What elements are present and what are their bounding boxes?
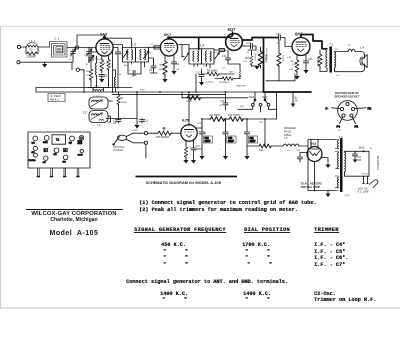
label near C19 gnd	[220, 149, 222, 151]
label C2	[68, 59, 72, 61]
label L1-a	[29, 40, 36, 44]
svg-text:R10 450000: R10 450000	[265, 48, 267, 61]
label C5	[149, 53, 153, 55]
page border scan line left	[0, 26, 2, 308]
svg-text:C13: C13	[144, 120, 149, 123]
tube 6J5	[181, 125, 197, 141]
svg-text:6Q7: 6Q7	[228, 27, 237, 32]
ground under C12/C13	[134, 92, 139, 129]
wire L3 bottom left drop	[128, 64, 141, 76]
svg-text:R16: R16	[245, 57, 250, 60]
svg-text:P3: P3	[355, 124, 359, 128]
socket pin br	[350, 114, 353, 117]
label near field	[287, 150, 290, 152]
label C3	[91, 59, 95, 61]
label R10	[264, 55, 266, 63]
label C23	[308, 58, 313, 61]
label R3	[104, 63, 108, 65]
label near T1 sec	[336, 75, 340, 77]
socket pin left	[340, 107, 343, 110]
wire L3 bottoms	[128, 62, 145, 67]
label C6	[149, 69, 153, 72]
label crystal pickup	[113, 146, 125, 152]
capacitor C6 avc	[150, 62, 157, 73]
wire cathode return	[266, 74, 295, 81]
svg-text:T.1: T.1	[56, 139, 60, 142]
label near 6K7 grid	[150, 44, 154, 46]
label near L2	[96, 96, 100, 98]
svg-text:L.4: L.4	[360, 45, 365, 49]
label L3	[132, 42, 136, 46]
label 6A8 pin	[95, 59, 97, 61]
svg-text:1.5: 1.5	[64, 150, 66, 152]
capacitor C13	[139, 119, 144, 124]
cap C19	[223, 119, 228, 160]
wire loop to grid	[67, 47, 96, 49]
panel box	[28, 132, 90, 168]
junction dot bias	[363, 150, 365, 152]
ground symbol	[42, 62, 47, 67]
label L.4 speaker	[360, 45, 365, 49]
capacitor C24	[352, 151, 357, 163]
svg-text:300: 300	[159, 69, 163, 71]
capacitor C17	[191, 140, 196, 164]
label near pickup sw	[133, 130, 139, 132]
label B+	[295, 96, 299, 103]
svg-text:P1 P2: P1 P2	[362, 174, 369, 176]
label near trimC2	[84, 55, 88, 57]
label R20	[316, 58, 318, 66]
resistor R3	[100, 56, 104, 73]
coil L2 box B	[89, 111, 108, 123]
speaker field label	[284, 127, 296, 140]
svg-text:6A8: 6A8	[32, 141, 35, 144]
socket F	[54, 148, 59, 156]
svg-text:25000: 25000	[121, 102, 128, 104]
socket C	[69, 136, 75, 144]
label R4	[120, 97, 124, 100]
svg-text:F-: F-	[326, 106, 329, 110]
socket lead P4	[337, 117, 343, 128]
AC plug prongs	[363, 176, 369, 183]
wire 6J5 plate	[196, 119, 203, 128]
label OSC	[94, 86, 100, 88]
capacitor C12	[116, 119, 121, 124]
label C11b	[243, 61, 248, 63]
svg-text:6J5: 6J5	[43, 162, 46, 164]
svg-text:C16: C16	[287, 57, 292, 59]
wire bottom osc	[106, 118, 137, 120]
5Y3 supply box	[308, 140, 335, 191]
svg-text:AVC: AVC	[230, 71, 235, 74]
title block: WILCOX-GAY	[26, 209, 123, 210]
socket pin bl	[342, 114, 345, 117]
typed notes	[139, 200, 316, 213]
label 6K6	[295, 31, 303, 36]
loop antenna L1	[50, 42, 68, 58]
label C9	[176, 63, 180, 66]
svg-text:C19: C19	[228, 138, 233, 140]
switch SW1	[251, 92, 256, 106]
wire heater bus left	[88, 87, 110, 89]
label L2	[83, 111, 87, 115]
svg-text:R12 15000: R12 15000	[228, 114, 240, 117]
svg-text:C.14: C.14	[246, 42, 252, 45]
wire bus drop x160	[181, 92, 183, 98]
svg-text:TUNG: TUNG	[78, 141, 83, 143]
resistor R5 cathode	[162, 56, 167, 83]
junction dot heavy	[262, 36, 264, 38]
IF transformer L3	[123, 48, 149, 63]
svg-text:C9: C9	[176, 63, 180, 66]
resistor R4	[107, 56, 110, 88]
label C1a	[112, 42, 116, 44]
svg-text:B+: B+	[370, 148, 373, 150]
grid cap clip 6K7	[167, 37, 170, 39]
label near heater bus	[140, 90, 145, 92]
svg-text:R6 2MEG: R6 2MEG	[207, 69, 218, 72]
label C12	[113, 120, 118, 126]
svg-text:L5: L5	[287, 150, 290, 152]
label C14b	[246, 52, 250, 54]
svg-text:6K6: 6K6	[54, 154, 57, 156]
svg-text:C5: C5	[150, 44, 154, 46]
crystal pickup body	[113, 135, 127, 145]
oscillator coil horizontal	[93, 88, 103, 92]
T2 label	[339, 135, 343, 139]
label R11	[209, 114, 221, 117]
caption rule	[136, 176, 238, 178]
svg-text:L2: L2	[83, 111, 87, 115]
label 520	[292, 64, 296, 66]
trimmer C6	[184, 53, 189, 60]
svg-text:R16: R16	[197, 123, 202, 125]
svg-text:PHONO: PHONO	[29, 160, 36, 162]
resistor R11	[209, 117, 226, 122]
main bus	[36, 91, 264, 93]
label heavy bus	[265, 48, 267, 61]
output transformer T1	[320, 49, 327, 72]
speaker loop wire	[337, 52, 365, 72]
resistor R14	[258, 144, 283, 148]
svg-text:C6: C6	[149, 69, 153, 72]
cap padder C	[115, 52, 120, 88]
wire 6J5 top to bus	[188, 92, 190, 125]
svg-text:SW: SW	[240, 106, 244, 108]
svg-text:520: 520	[292, 64, 296, 66]
svg-text:20MF: 20MF	[228, 141, 234, 143]
node phono jumper	[76, 68, 79, 71]
T2 primary coils left	[335, 140, 339, 191]
label R12	[228, 114, 240, 117]
svg-text:6K7: 6K7	[164, 32, 172, 37]
label C22	[276, 33, 281, 36]
label 6K7	[164, 32, 172, 37]
wire ant to L1-a	[21, 46, 26, 48]
label near R5	[159, 69, 163, 71]
heater text	[301, 182, 323, 188]
label near 6J5 plate	[197, 123, 202, 125]
trimmer C2	[71, 49, 76, 63]
label near R4	[121, 102, 128, 104]
resistor R8	[234, 64, 241, 79]
label near speaker hump	[348, 45, 351, 47]
svg-text:SW3: SW3	[133, 130, 139, 132]
terminal GND	[17, 61, 20, 64]
table body	[0, 241, 1, 243]
svg-text:C15: C15	[220, 100, 225, 103]
socket lead FB	[355, 106, 371, 110]
capacitor C10	[199, 69, 204, 86]
svg-text:6A8: 6A8	[100, 32, 108, 37]
trimmer C3	[87, 48, 92, 63]
B+ drop arrow	[291, 92, 295, 107]
label 20 in L1a	[30, 48, 33, 52]
label C11	[222, 55, 227, 58]
diode load parts under 6Q7	[225, 50, 234, 64]
svg-text:SPKR: SPKR	[43, 142, 48, 144]
svg-text:450000: 450000	[316, 58, 318, 66]
svg-text:+: +	[220, 149, 222, 151]
svg-text:C10: C10	[196, 72, 201, 75]
svg-text:SPEAKER SOCKET: SPEAKER SOCKET	[335, 95, 360, 99]
label 5Y3	[310, 142, 316, 146]
label near R6	[203, 66, 208, 68]
svg-text:COND: COND	[78, 143, 84, 145]
svg-text:C2: C2	[68, 59, 72, 61]
svg-text:R17: R17	[291, 61, 296, 63]
label 46000	[97, 59, 104, 61]
svg-text:OSC.: OSC.	[94, 86, 100, 88]
label R15	[156, 136, 170, 139]
svg-text:.05: .05	[131, 76, 135, 78]
label R9 vertical	[254, 53, 256, 61]
terminal ANT	[17, 45, 20, 48]
label near C24b	[370, 148, 373, 150]
T1 box on panel	[52, 135, 66, 144]
panel leg 1	[37, 168, 40, 177]
heater bus upper	[36, 87, 132, 89]
trimmer C7	[214, 53, 219, 60]
svg-text:16MF: 16MF	[250, 141, 256, 143]
resistor R6 volume	[202, 72, 235, 76]
5Y3 plate wires	[311, 140, 318, 148]
cap C15 on bus	[223, 98, 228, 110]
label C15	[220, 100, 225, 103]
label 6Q7	[228, 27, 237, 32]
label C16	[287, 57, 292, 59]
label near C18 gnd	[196, 149, 198, 151]
trimmer C2 osc	[89, 55, 94, 66]
svg-text:R15 500000: R15 500000	[156, 136, 170, 139]
svg-text:C21: C21	[250, 138, 255, 140]
svg-text:3.3: 3.3	[203, 133, 207, 135]
svg-text:P4: P4	[335, 49, 338, 51]
label C17	[196, 145, 203, 151]
trimmer C5	[144, 51, 149, 58]
panel leg 4	[76, 168, 79, 177]
svg-text:R11 46600: R11 46600	[209, 114, 221, 117]
label near SW	[262, 96, 268, 99]
svg-text:456 K.C.: 456 K.C.	[50, 98, 60, 101]
panel leg 2	[50, 168, 53, 177]
svg-text:6.3V: 6.3V	[140, 90, 145, 92]
speaker socket circle	[338, 101, 358, 121]
resistor R10 beside heavy	[258, 47, 263, 68]
resistor R12	[228, 117, 245, 122]
phono terminal lower	[144, 141, 147, 144]
resistor R20 screen	[318, 50, 322, 72]
label R1	[86, 64, 90, 66]
resistor R19 cathode	[294, 55, 299, 80]
svg-text:BIAS: BIAS	[359, 147, 365, 150]
caption text	[146, 180, 222, 185]
heavy plate supply vertical	[263, 38, 265, 93]
svg-text:LOOP: LOOP	[78, 155, 84, 157]
label 6A8	[100, 32, 108, 37]
label C14	[246, 42, 252, 45]
filter junction to R14	[247, 119, 265, 146]
svg-text:AND DIAL LAMP: AND DIAL LAMP	[301, 186, 321, 189]
svg-text:C10: C10	[203, 66, 208, 68]
label near 6Q7 left	[222, 68, 226, 70]
page border scan line top	[0, 25, 400, 27]
wire junction to bus	[195, 74, 197, 92]
jumper box b	[64, 148, 68, 152]
svg-text:L1-a: L1-a	[29, 40, 36, 44]
svg-text:R13 14000: R13 14000	[188, 94, 200, 97]
socket A	[32, 136, 38, 144]
svg-text:20: 20	[30, 48, 33, 52]
jumper box a	[44, 148, 48, 152]
tube 5Y3	[307, 147, 322, 162]
svg-text:6Q7: 6Q7	[69, 142, 72, 144]
label R7 avc	[219, 82, 229, 84]
label C18	[204, 136, 213, 143]
label near sw	[240, 106, 244, 108]
label R6	[207, 69, 218, 72]
heater bus second line	[112, 93, 226, 95]
socket B	[43, 136, 49, 144]
long vertical to filter	[276, 92, 278, 119]
heavy top wire to C22	[242, 38, 278, 41]
wire 6K6 plate to T1	[301, 35, 327, 49]
label near filter	[259, 122, 264, 124]
wire gnd terminal bus	[20, 62, 72, 70]
label L1	[55, 37, 60, 41]
pickup wires to terminals	[126, 133, 144, 143]
grid cap clip 6A8	[103, 36, 107, 39]
svg-text:T.1: T.1	[329, 42, 333, 46]
label AC line	[358, 187, 370, 193]
socket H	[63, 155, 68, 164]
label C8	[104, 73, 108, 77]
cap C21	[244, 119, 249, 160]
svg-text:6.3V: 6.3V	[345, 195, 350, 197]
socket pin right	[351, 107, 354, 110]
page border scan line bottom	[0, 307, 400, 309]
bus lower segment	[182, 97, 248, 99]
resistor R2	[89, 66, 93, 88]
svg-text:L4: L4	[200, 43, 204, 47]
tube 6Q7	[226, 32, 243, 51]
svg-text:R4: R4	[120, 97, 124, 100]
svg-text:C18: C18	[205, 138, 210, 140]
svg-text:OSC: OSC	[97, 125, 102, 127]
socket D double	[78, 136, 84, 146]
wire L1a to loop	[38, 46, 50, 48]
table headers	[134, 227, 226, 233]
node grid circle	[75, 46, 78, 49]
label .05	[276, 43, 280, 45]
wire lower terminal down	[145, 144, 147, 158]
resistor R17 cathode	[183, 141, 188, 164]
svg-text:20MF: 20MF	[205, 141, 211, 143]
wire 6A8 plate to L3	[113, 45, 122, 53]
5Y3 cathode ground	[322, 158, 331, 169]
IF peak text	[50, 95, 61, 101]
label near plug	[362, 174, 369, 176]
label near L3 bot	[131, 76, 135, 78]
label near det	[206, 82, 214, 84]
IF peak box	[48, 94, 65, 102]
label C	[129, 70, 131, 72]
wire to osc section	[80, 70, 85, 92]
filter line	[202, 118, 277, 120]
svg-text:C8: C8	[104, 73, 108, 77]
resistor R7 avc	[215, 77, 240, 81]
coil osc grid	[95, 56, 96, 87]
heavy drop to L4	[198, 37, 200, 49]
cap C18	[199, 119, 204, 160]
svg-text:C7: C7	[222, 68, 226, 70]
svg-text:C25: C25	[296, 150, 301, 152]
label C21	[249, 136, 258, 143]
svg-text:470000: 470000	[206, 82, 214, 84]
bottom view speaker socket text	[335, 91, 360, 99]
label near T1 top	[335, 49, 338, 51]
capacitor C22 coupling	[279, 35, 293, 47]
svg-text:C14: C14	[117, 74, 122, 76]
label near socket	[338, 130, 341, 132]
svg-text:C20: C20	[259, 122, 264, 124]
label 20MMF	[27, 55, 37, 59]
label L4	[200, 43, 204, 47]
svg-text:C12: C12	[243, 61, 248, 63]
svg-text:R19: R19	[289, 69, 294, 71]
resistor R13	[186, 96, 202, 100]
volume pot R15	[148, 127, 182, 135]
capacitor C23	[303, 55, 308, 74]
label 250000	[236, 86, 246, 88]
svg-text:8MF: 8MF	[357, 159, 362, 162]
wire bus drop x225	[225, 92, 227, 98]
resistor R16	[248, 50, 260, 70]
label R2	[86, 71, 90, 73]
svg-text:R4: R4	[124, 65, 128, 67]
T2 secondary bottom wire	[345, 172, 370, 177]
svg-text:C: C	[129, 70, 131, 72]
label C19	[227, 136, 236, 143]
label 410	[124, 65, 128, 67]
svg-text:.05: .05	[219, 105, 223, 107]
label C24	[357, 156, 362, 162]
resistor R18 grid leak	[277, 40, 281, 81]
T1 secondary	[335, 52, 349, 72]
label R13	[188, 94, 200, 97]
svg-text:TO MOTOR: TO MOTOR	[376, 156, 380, 170]
coil L1-a	[26, 43, 38, 47]
